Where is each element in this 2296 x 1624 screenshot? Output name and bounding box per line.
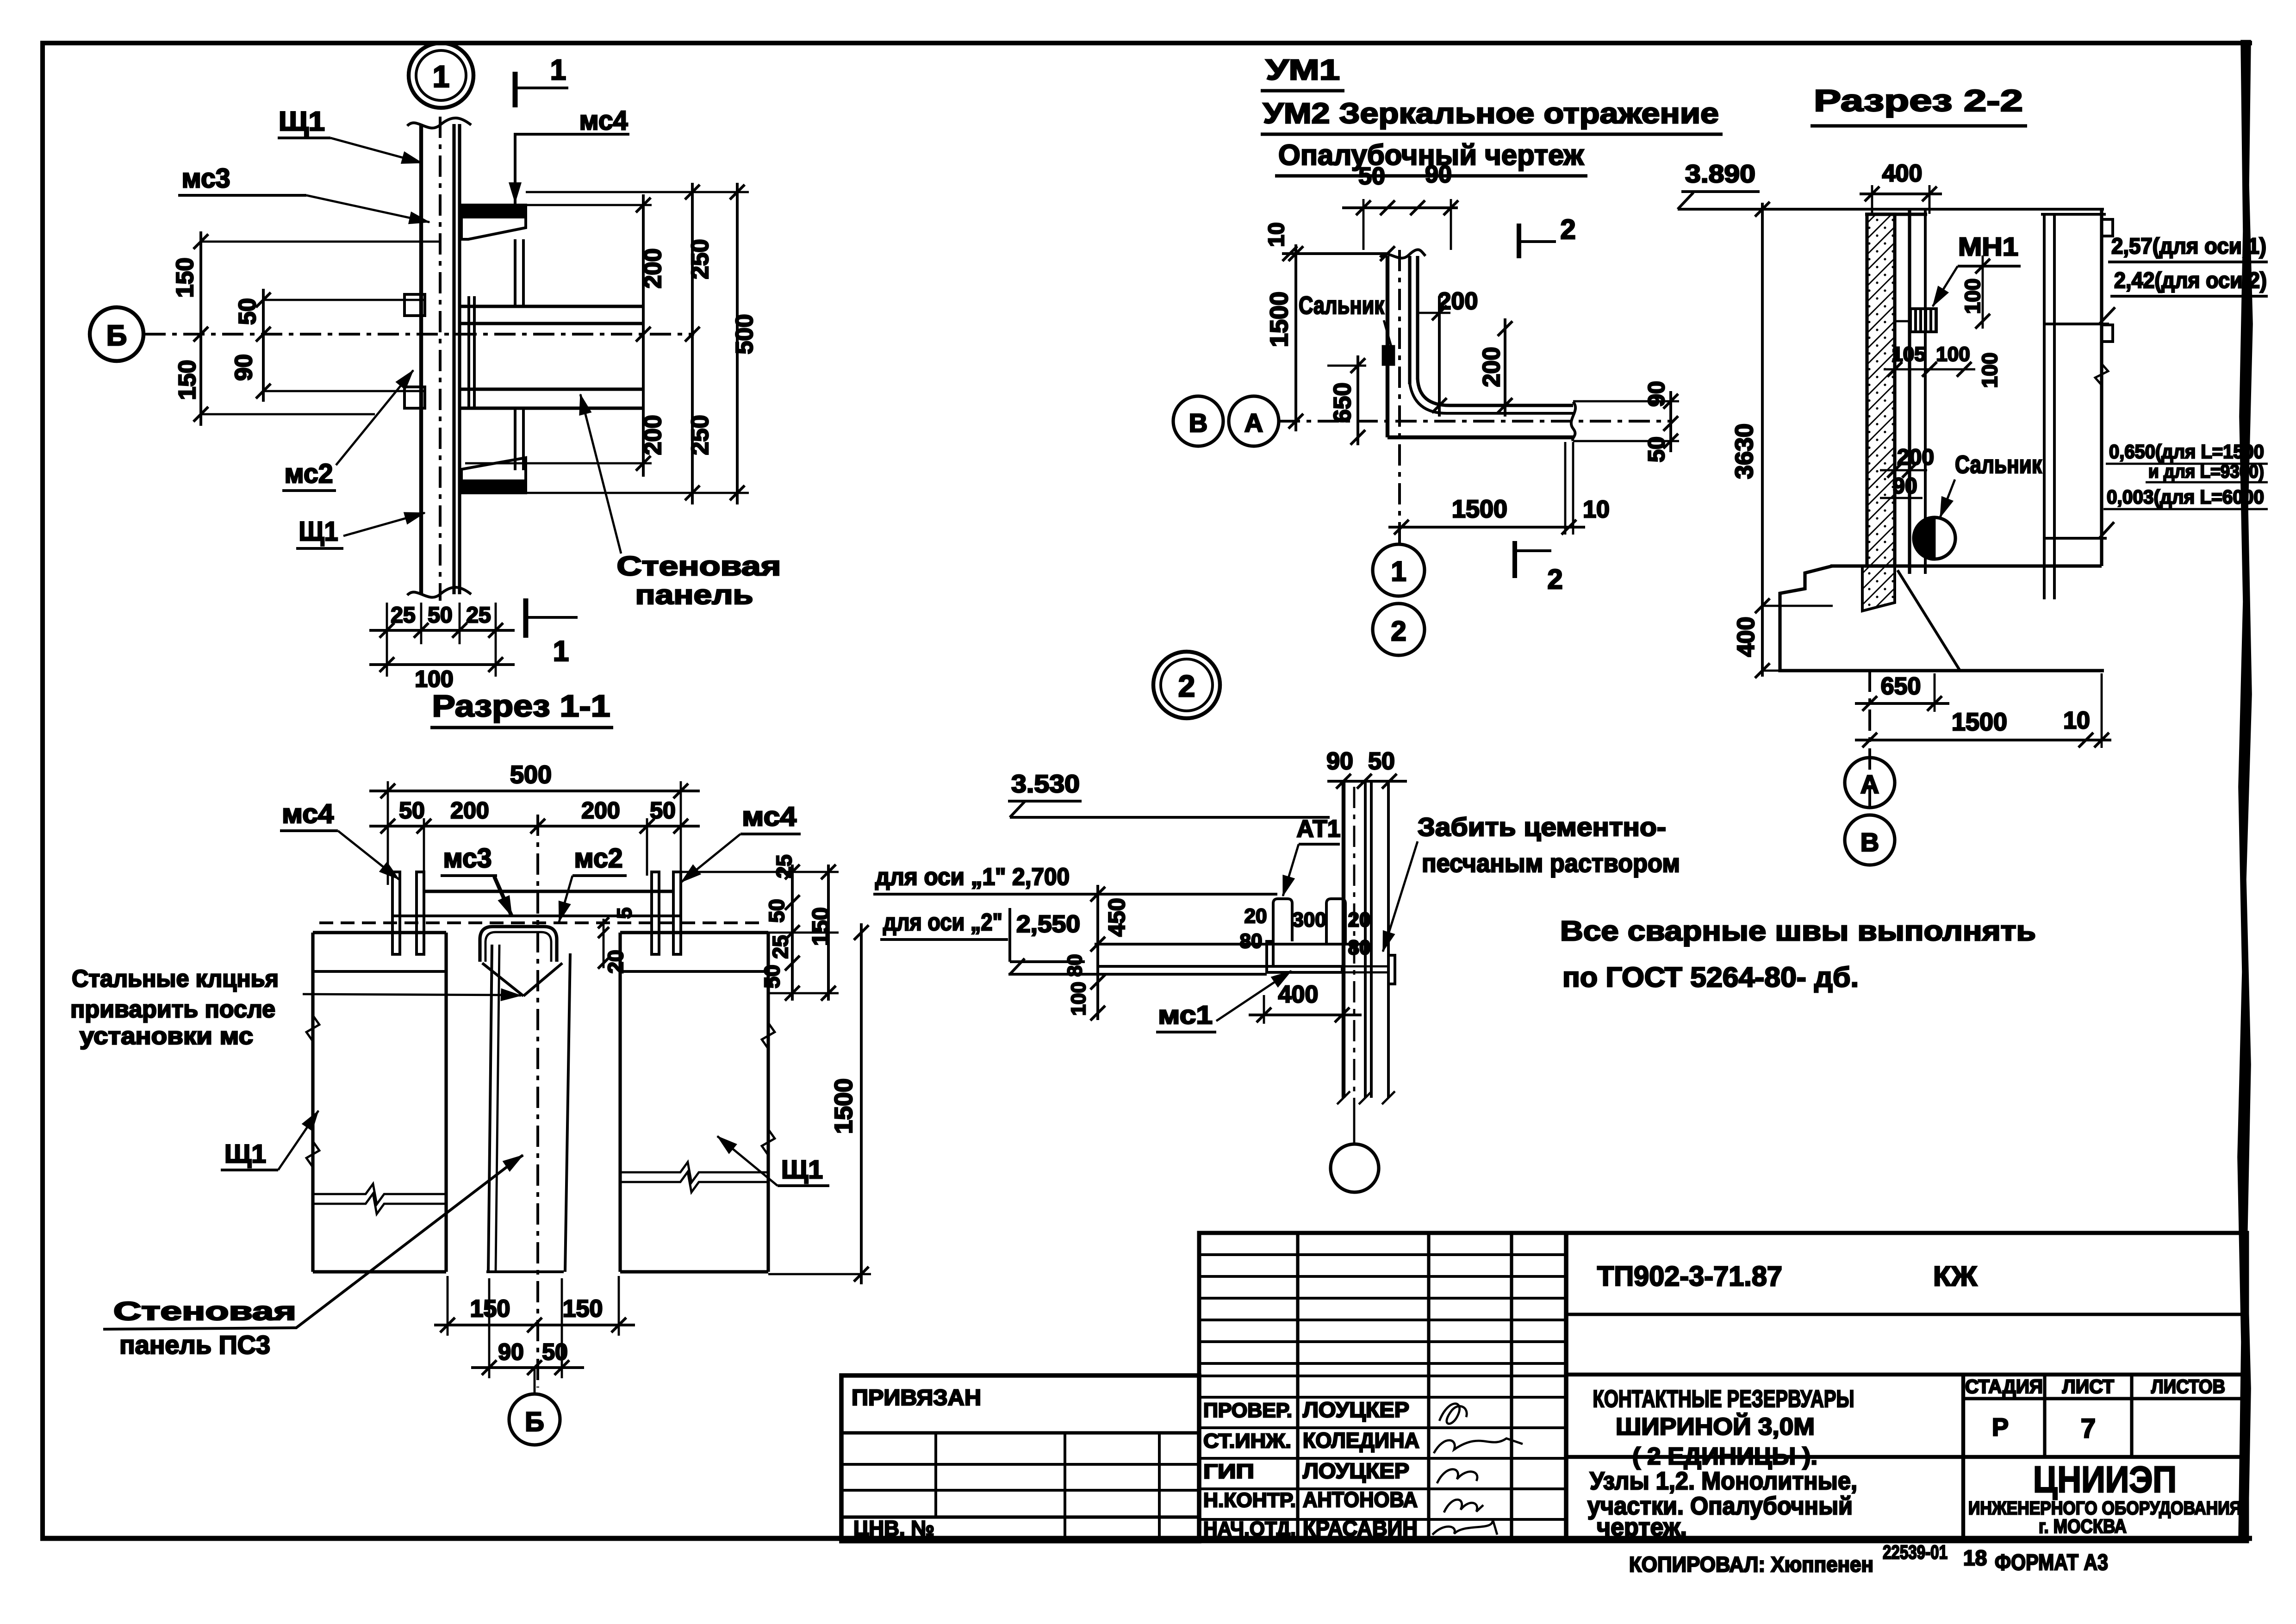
svg-text:18: 18 xyxy=(1963,1546,1987,1570)
svg-text:панель ПС3: панель ПС3 xyxy=(119,1330,270,1359)
svg-text:500: 500 xyxy=(510,761,552,789)
svg-text:Щ1: Щ1 xyxy=(781,1155,823,1184)
svg-text:200: 200 xyxy=(450,797,489,823)
svg-text:90: 90 xyxy=(1643,381,1669,407)
bottom dim 1500 / 10 xyxy=(1388,526,1585,529)
svg-text:80: 80 xyxy=(1240,930,1263,952)
axis circle Б bottom xyxy=(534,1368,536,1395)
dim 200 rotated xyxy=(1504,318,1506,417)
svg-text:Сальник: Сальник xyxy=(1955,451,2042,479)
wall (vertical) xyxy=(1342,782,1345,1098)
Сальник mark on wall xyxy=(1383,346,1394,365)
svg-text:Разрез 2-2: Разрез 2-2 xyxy=(1814,83,2023,118)
dim 450/80/100 xyxy=(1096,885,1099,1020)
svg-text:400: 400 xyxy=(1733,617,1760,657)
svg-text:650: 650 xyxy=(1329,383,1356,423)
svg-text:Сальник: Сальник xyxy=(1299,292,1385,319)
svg-text:90: 90 xyxy=(1892,474,1917,498)
svg-text:НАЧ.ОТД.: НАЧ.ОТД. xyxy=(1203,1518,1296,1540)
svg-text:400: 400 xyxy=(1278,981,1319,1008)
svg-text:песчаным раствором: песчаным раствором xyxy=(1422,848,1680,877)
svg-text:1500: 1500 xyxy=(1952,708,2007,736)
svg-text:мс3: мс3 xyxy=(443,843,492,873)
svg-text:г. МОСКВА: г. МОСКВА xyxy=(2039,1515,2127,1537)
svg-text:50: 50 xyxy=(1368,748,1395,775)
svg-text:ЛОУЦКЕР: ЛОУЦКЕР xyxy=(1303,1398,1409,1422)
right dim 200/200 xyxy=(642,194,645,477)
svg-text:10: 10 xyxy=(1583,496,1610,523)
leg end dims 90/50 xyxy=(1669,391,1672,452)
slab lines xyxy=(1095,943,1364,946)
right dim 25/50/25/50 xyxy=(791,865,794,1001)
wall panel (horizontal element, plan) xyxy=(458,305,643,308)
svg-text:( 2 ЕДИНИЦЫ ).: ( 2 ЕДИНИЦЫ ). xyxy=(1632,1443,1817,1470)
svg-text:50: 50 xyxy=(1643,436,1669,462)
svg-text:1: 1 xyxy=(553,635,569,667)
svg-text:100: 100 xyxy=(1978,353,2002,388)
connection tabs on panel xyxy=(404,294,425,316)
signatures (handwritten squiggles) xyxy=(1439,1404,1467,1424)
anchor bolt МН1 (hatched) xyxy=(1910,309,1936,332)
svg-text:20: 20 xyxy=(1348,908,1371,931)
right part verticals xyxy=(1961,1375,1965,1541)
axis line Б vertical xyxy=(536,815,539,1388)
svg-text:Узлы 1,2. Монолитные,: Узлы 1,2. Монолитные, xyxy=(1590,1467,1857,1495)
svg-text:Разрез 1-1: Разрез 1-1 xyxy=(432,689,610,723)
svg-text:100: 100 xyxy=(415,666,453,692)
svg-text:2: 2 xyxy=(1391,616,1406,647)
svg-text:3.530: 3.530 xyxy=(1011,770,1080,798)
svg-text:50: 50 xyxy=(428,603,452,628)
svg-text:25: 25 xyxy=(466,603,491,628)
dim 10 xyxy=(1282,252,1388,255)
dim 500 top xyxy=(369,790,700,792)
svg-text:3630: 3630 xyxy=(1730,423,1758,479)
section mark 1 top xyxy=(513,72,518,107)
dim 50/200/200/50 xyxy=(369,825,700,828)
svg-text:200: 200 xyxy=(1438,288,1478,315)
svg-text:400: 400 xyxy=(1882,160,1923,187)
svg-text:Стеновая: Стеновая xyxy=(113,1296,296,1325)
svg-text:А: А xyxy=(1860,770,1879,799)
svg-text:УМ2 Зеркальное отражение: УМ2 Зеркальное отражение xyxy=(1263,98,1719,130)
svg-text:Стальные клцнья: Стальные клцнья xyxy=(72,965,279,992)
section mark 1 bottom xyxy=(523,598,529,638)
axis circles А and В (section) xyxy=(1868,671,1871,815)
svg-text:Н.КОНТР.: Н.КОНТР. xyxy=(1203,1489,1296,1512)
svg-text:КОПИРОВАЛ: Хюппенен: КОПИРОВАЛ: Хюппенен xyxy=(1629,1552,1873,1576)
svg-text:ФОРМАТ А3: ФОРМАТ А3 xyxy=(1995,1550,2108,1575)
svg-text:25: 25 xyxy=(391,603,415,628)
svg-text:150: 150 xyxy=(172,258,199,298)
svg-text:мс3: мс3 xyxy=(182,163,230,193)
svg-text:Б: Б xyxy=(106,320,127,352)
foundation profile xyxy=(1780,566,2104,671)
svg-text:0,003(для L=6000: 0,003(для L=6000 xyxy=(2107,486,2264,508)
svg-text:панель: панель xyxy=(635,580,753,610)
svg-text:80: 80 xyxy=(1348,936,1371,959)
axis Б circle xyxy=(90,307,143,361)
section mark 2 top xyxy=(1517,224,1521,258)
svg-text:мс2: мс2 xyxy=(285,459,333,489)
svg-text:2: 2 xyxy=(1178,669,1195,703)
formwork lines beside wall xyxy=(1908,211,1911,574)
svg-text:ПРИВЯЗАН: ПРИВЯЗАН xyxy=(852,1386,981,1410)
svg-text:50: 50 xyxy=(760,964,784,988)
svg-text:2,550: 2,550 xyxy=(1016,911,1080,938)
title block main verticals xyxy=(1564,1233,1568,1541)
svg-text:90: 90 xyxy=(230,354,257,381)
angle мс1 xyxy=(1267,941,1342,972)
svg-text:50: 50 xyxy=(542,1339,568,1365)
svg-text:50: 50 xyxy=(765,899,789,922)
svg-text:200: 200 xyxy=(640,249,666,289)
dim 650 bottom xyxy=(1855,702,1949,705)
right formwork shield xyxy=(2043,214,2046,599)
svg-text:для оси „2": для оси „2" xyxy=(883,909,1002,936)
svg-text:650: 650 xyxy=(1881,673,1921,700)
svg-text:А: А xyxy=(1244,408,1263,437)
svg-text:чертеж.: чертеж. xyxy=(1597,1513,1687,1541)
svg-text:50: 50 xyxy=(399,797,425,823)
svg-text:300: 300 xyxy=(1292,908,1326,931)
axis circles 1 and 2 below xyxy=(1373,544,1425,596)
bottom dim 150/150 xyxy=(434,1324,635,1326)
svg-text:Р: Р xyxy=(1992,1413,2009,1441)
svg-text:по ГОСТ 5264-80- дб.: по ГОСТ 5264-80- дб. xyxy=(1562,962,1859,993)
svg-text:20: 20 xyxy=(1244,905,1267,927)
dim 650 xyxy=(1356,355,1359,445)
svg-text:В: В xyxy=(1860,828,1879,857)
svg-text:мс1: мс1 xyxy=(1158,1000,1213,1029)
axis circles В and А xyxy=(1173,396,1223,446)
svg-text:0,650(для L=1500: 0,650(для L=1500 xyxy=(2109,441,2264,462)
node marker circle 1 (double) xyxy=(409,43,473,108)
svg-text:СТ.ИНЖ.: СТ.ИНЖ. xyxy=(1203,1430,1291,1452)
svg-text:90: 90 xyxy=(1326,748,1353,775)
svg-text:УМ1: УМ1 xyxy=(1266,54,1340,86)
svg-text:1: 1 xyxy=(433,59,450,93)
svg-text:250: 250 xyxy=(687,415,714,455)
svg-text:Щ1: Щ1 xyxy=(224,1139,266,1168)
shield panel right (section) xyxy=(620,931,768,934)
sheet border frame xyxy=(40,42,45,1540)
svg-text:150: 150 xyxy=(174,360,201,400)
corner wall: fillet and horizontal leg xyxy=(1418,379,1573,405)
svg-text:для оси „1" 2,700: для оси „1" 2,700 xyxy=(875,864,1070,890)
svg-text:ЦНВ. №: ЦНВ. № xyxy=(853,1516,934,1540)
svg-text:Стеновая: Стеновая xyxy=(617,551,781,581)
svg-text:мс4: мс4 xyxy=(579,106,628,136)
attachment table ПРИВЯЗАН xyxy=(841,1375,1199,1541)
bottom dim 90/50 xyxy=(471,1366,584,1369)
svg-text:ЛОУЦКЕР: ЛОУЦКЕР xyxy=(1303,1459,1409,1483)
dim 3630 / 400 vertical xyxy=(1761,203,1764,677)
svg-text:90: 90 xyxy=(1425,161,1452,188)
svg-text:В: В xyxy=(1189,408,1207,437)
svg-text:50: 50 xyxy=(650,797,676,823)
svg-text:100: 100 xyxy=(1960,279,1985,314)
svg-text:ЛИСТ: ЛИСТ xyxy=(2062,1375,2114,1397)
svg-text:50: 50 xyxy=(234,298,261,325)
dim 1500 / 10 bottom xyxy=(1855,739,2111,741)
svg-text:КЖ: КЖ xyxy=(1933,1261,1978,1292)
dims near bolt xyxy=(1982,255,1984,329)
svg-text:450: 450 xyxy=(1104,898,1130,936)
svg-text:Забить цементно-: Забить цементно- xyxy=(1418,812,1666,841)
dim 50/90 top of wall xyxy=(1342,206,1458,209)
svg-text:10: 10 xyxy=(1264,222,1289,247)
svg-text:200: 200 xyxy=(1478,347,1505,387)
concrete wall (hatched) xyxy=(1867,214,1895,566)
svg-text:2,57(для оси,1): 2,57(для оси,1) xyxy=(2111,234,2266,259)
left dim 50/90 xyxy=(262,289,265,402)
svg-text:ЛИСТОВ: ЛИСТОВ xyxy=(2151,1375,2225,1397)
title block left small rows xyxy=(1199,1253,1566,1256)
svg-text:90: 90 xyxy=(498,1339,524,1365)
svg-text:ПРОВЕР.: ПРОВЕР. xyxy=(1203,1399,1292,1422)
svg-text:250: 250 xyxy=(687,239,714,280)
dim 200 (near corner) xyxy=(1438,296,1441,417)
svg-text:7: 7 xyxy=(2081,1413,2096,1444)
svg-text:3.890: 3.890 xyxy=(1685,160,1755,188)
svg-text:1500: 1500 xyxy=(1452,495,1507,523)
bracket мс4 right (section) xyxy=(652,872,659,954)
corner wall (plan): vertical leg xyxy=(1386,256,1389,437)
svg-text:200: 200 xyxy=(581,797,620,823)
dim 1500 right xyxy=(860,923,863,1284)
right dim 150 xyxy=(827,865,830,1001)
axis line А xyxy=(1279,420,1671,423)
svg-text:1: 1 xyxy=(1391,556,1406,587)
svg-text:Б: Б xyxy=(525,1407,544,1437)
svg-text:50: 50 xyxy=(1358,163,1385,190)
channel мс2 edge (plan) xyxy=(467,296,470,407)
svg-text:мс4: мс4 xyxy=(742,802,796,832)
channel мс2 (section) xyxy=(480,927,557,962)
formwork shield panel Щ1 (vertical strip) xyxy=(419,124,423,594)
dim 1500 vertical xyxy=(1294,244,1297,431)
bracket мс4 bottom xyxy=(461,481,526,493)
steel wedge xyxy=(482,963,523,996)
svg-text:1: 1 xyxy=(550,54,566,86)
svg-text:КОНТАКТНЫЕ РЕЗЕРВУАРЫ: КОНТАКТНЫЕ РЕЗЕРВУАРЫ xyxy=(1593,1386,1854,1412)
svg-text:2: 2 xyxy=(1560,214,1575,245)
small dims 5 / 20 xyxy=(603,919,605,968)
svg-text:установки мс: установки мс xyxy=(80,1023,253,1050)
bracket pieces on slab xyxy=(1273,899,1292,941)
svg-text:Все сварные швы выполня: Все сварные швы выполнять xyxy=(1560,915,2036,946)
svg-text:мс4: мс4 xyxy=(282,799,334,829)
svg-text:Щ1: Щ1 xyxy=(279,106,325,137)
svg-text:25: 25 xyxy=(772,854,796,878)
title block outer xyxy=(1199,1233,2247,1541)
shield panel left (section) xyxy=(313,931,446,934)
svg-text:МН1: МН1 xyxy=(1958,232,2018,261)
svg-text:22539-01: 22539-01 xyxy=(1883,1541,1948,1563)
svg-text:150: 150 xyxy=(808,907,834,946)
svg-text:500: 500 xyxy=(731,314,758,355)
svg-text:СТАДИЯ: СТАДИЯ xyxy=(1965,1375,2043,1397)
svg-text:150: 150 xyxy=(563,1295,603,1322)
svg-text:1500: 1500 xyxy=(1265,292,1293,347)
svg-text:2: 2 xyxy=(1547,564,1562,595)
svg-text:Щ1: Щ1 xyxy=(299,516,338,547)
axis Б line xyxy=(144,333,694,336)
svg-text:мс2: мс2 xyxy=(574,843,623,873)
svg-text:КРАСАВИН: КРАСАВИН xyxy=(1303,1516,1418,1540)
svg-text:АТ1: АТ1 xyxy=(1297,815,1341,842)
concrete into foundation xyxy=(1862,566,1895,611)
svg-text:приварить после: приварить после xyxy=(70,996,275,1023)
svg-text:100: 100 xyxy=(1936,343,1970,366)
right dim 500 xyxy=(736,183,739,504)
left dim 150/150 xyxy=(199,231,202,426)
svg-text:ШИРИНОЙ 3,0М: ШИРИНОЙ 3,0М xyxy=(1616,1413,1815,1440)
section mark 2 bottom xyxy=(1512,541,1517,578)
bottom dims 25/50/25 and 100 xyxy=(386,603,388,677)
gland (сальник) circle xyxy=(1914,517,1955,559)
svg-text:ГИП: ГИП xyxy=(1203,1460,1254,1483)
bracket мс4 left (section) xyxy=(392,872,400,954)
leader line for клинья note xyxy=(303,994,509,995)
right dim 250/250 xyxy=(691,183,694,504)
svg-text:105: 105 xyxy=(1892,343,1925,366)
node marker circle 2 (double) xyxy=(1153,652,1220,718)
svg-text:и для L=9300): и для L=9300) xyxy=(2148,461,2264,482)
top connecting plate xyxy=(424,890,673,893)
svg-text:ЦНИИЭП: ЦНИИЭП xyxy=(2033,1459,2177,1500)
svg-text:25: 25 xyxy=(768,935,792,958)
svg-text:ТП902-3-71.87: ТП902-3-71.87 xyxy=(1597,1261,1782,1292)
bolt through wall xyxy=(1345,965,1388,968)
svg-text:1500: 1500 xyxy=(830,1078,858,1134)
svg-text:2,42(для оси 2): 2,42(для оси 2) xyxy=(2114,268,2267,293)
signature rows xyxy=(1199,1426,1566,1429)
wall panel ПС3 edges in joint xyxy=(488,945,492,1272)
svg-text:200: 200 xyxy=(640,415,666,455)
right part horizontals xyxy=(1566,1313,2247,1316)
svg-text:АНТОНОВА: АНТОНОВА xyxy=(1303,1487,1418,1512)
svg-text:КОЛЕДИНА: КОЛЕДИНА xyxy=(1303,1428,1419,1452)
bracket мс4 top xyxy=(461,205,526,217)
axis continuation + circle xyxy=(1353,1098,1356,1145)
svg-text:20: 20 xyxy=(604,950,628,973)
svg-text:5: 5 xyxy=(613,908,636,919)
svg-text:10: 10 xyxy=(2063,707,2090,734)
svg-text:100: 100 xyxy=(1067,982,1090,1015)
